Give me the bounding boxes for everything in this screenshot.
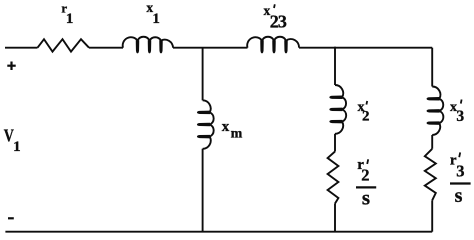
svg-text:1: 1 [66,11,74,27]
svg-text:2: 2 [361,165,369,184]
svg-text:2: 2 [362,109,370,125]
svg-text:s: s [455,185,463,207]
svg-text:3: 3 [456,162,464,181]
svg-text:m: m [231,127,243,142]
svg-text:V: V [4,127,14,146]
svg-text:1: 1 [13,139,21,155]
svg-text:23: 23 [270,12,287,32]
svg-text:3: 3 [456,108,464,125]
svg-text:s: s [362,185,370,209]
svg-text:1: 1 [152,11,160,27]
svg-text:x: x [222,119,230,135]
